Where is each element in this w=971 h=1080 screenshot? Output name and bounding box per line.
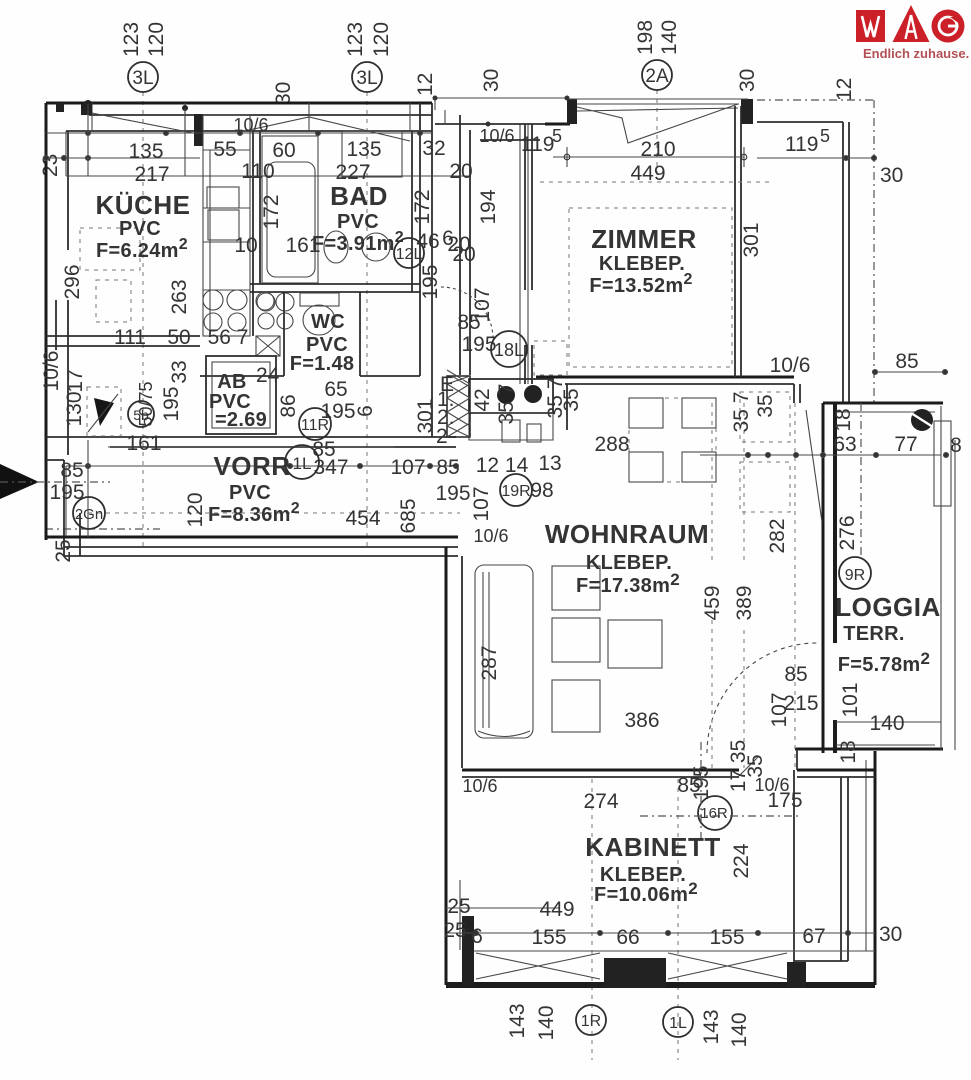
window A glazing (92, 103, 198, 134)
zimmer east wall (735, 106, 741, 377)
kabinett top wall (462, 749, 875, 985)
svg-text:LOGGIA: LOGGIA (835, 592, 941, 622)
svg-text:KÜCHE: KÜCHE (96, 190, 191, 220)
kabinett dimension lines (446, 880, 875, 950)
entry door black wedge (94, 398, 114, 426)
dimension line zimmer 449 (540, 147, 770, 182)
svg-text:6: 6 (354, 405, 377, 417)
dims wohnraum (435, 354, 818, 792)
room label wc (290, 311, 355, 375)
dims kabinett (443, 765, 825, 1047)
svg-text:30: 30 (880, 164, 903, 187)
svg-text:85: 85 (895, 350, 918, 373)
svg-text:66: 66 (616, 926, 639, 949)
svg-text:5: 5 (552, 126, 562, 146)
loggia door leaf (806, 410, 822, 522)
svg-text:195: 195 (435, 482, 470, 505)
room label kuche (96, 190, 191, 262)
svg-text:WOHNRAUM: WOHNRAUM (545, 519, 709, 549)
svg-text:101: 101 (839, 682, 862, 717)
building right wall below loggia (874, 751, 877, 985)
svg-text:120: 120 (370, 22, 393, 57)
svg-text:120: 120 (145, 22, 168, 57)
svg-text:18L: 18L (494, 340, 524, 360)
dims corridor column (414, 189, 763, 448)
svg-text:274: 274 (583, 790, 618, 813)
dims loggia (832, 408, 962, 763)
svg-text:32: 32 (422, 137, 445, 160)
svg-text:AB: AB (217, 371, 247, 393)
svg-text:288: 288 (594, 433, 629, 456)
svg-text:16R: 16R (700, 805, 728, 822)
loggia dimension marks (700, 370, 949, 723)
svg-text:195: 195 (419, 264, 442, 299)
dims bad wc (260, 189, 471, 461)
svg-text:107: 107 (390, 456, 425, 479)
svg-text:386: 386 (624, 709, 659, 732)
top wall outer line (46, 102, 432, 105)
svg-text:KLEBEP.: KLEBEP. (600, 864, 686, 886)
room label bad (312, 181, 404, 255)
hinge mark (911, 409, 933, 431)
zimmer bottom wall (536, 377, 794, 384)
svg-text:85: 85 (784, 663, 807, 686)
svg-text:140: 140 (658, 20, 681, 55)
top-left corner block (81, 104, 92, 115)
dimension line 1195 right top (757, 156, 877, 161)
svg-text:5: 5 (820, 126, 830, 146)
svg-text:85: 85 (457, 311, 480, 334)
svg-text:PVC: PVC (337, 211, 379, 233)
svg-text:F=17.38m2: F=17.38m2 (576, 570, 680, 597)
svg-text:17: 17 (64, 369, 87, 392)
wohnraum east wall / loggia west wall (794, 384, 835, 753)
zimmer window glazing (577, 104, 738, 143)
svg-text:135: 135 (128, 140, 163, 163)
svg-text:11R: 11R (301, 417, 329, 434)
dining table dashed (629, 392, 790, 512)
svg-text:67: 67 (802, 925, 825, 948)
svg-text:85: 85 (436, 456, 459, 479)
svg-text:35: 35 (754, 394, 777, 417)
svg-text:63: 63 (833, 433, 856, 456)
svg-text:5b: 5b (133, 407, 149, 423)
svg-text:1L: 1L (293, 454, 312, 473)
svg-text:111: 111 (114, 326, 146, 349)
svg-text:143: 143 (700, 1009, 723, 1044)
svg-text:30: 30 (272, 82, 295, 105)
corridor between left wing and zimmer (432, 96, 570, 438)
svg-text:F=6.24m2: F=6.24m2 (96, 236, 188, 262)
svg-text:35: 35 (560, 388, 583, 411)
svg-text:23: 23 (39, 154, 62, 177)
kitchen pass block top of wohnraum (469, 379, 567, 442)
svg-text:10: 10 (234, 234, 257, 257)
svg-text:2: 2 (436, 425, 448, 448)
top axis label 198/140 (634, 20, 681, 90)
zimmer top wall (545, 99, 753, 143)
svg-text:449: 449 (539, 898, 574, 921)
svg-text:172: 172 (260, 194, 283, 229)
zimmer door arc (441, 287, 493, 339)
small rotated dims top row (272, 69, 903, 946)
svg-text:10/6: 10/6 (233, 115, 268, 135)
vorr top wall (46, 437, 456, 447)
svg-text:161: 161 (126, 432, 161, 455)
svg-text:25: 25 (443, 919, 466, 942)
svg-text:215: 215 (783, 692, 818, 715)
zimmer dashed inner rect (569, 208, 732, 367)
svg-text:296: 296 (61, 264, 84, 299)
top axis label 123/120 mid (344, 22, 393, 92)
axis circles interior (73, 238, 871, 1037)
kitchen-bad divider wall (253, 131, 260, 336)
svg-text:195: 195 (160, 386, 183, 421)
room label zimmer (589, 224, 696, 297)
svg-text:25: 25 (447, 895, 470, 918)
svg-text:86: 86 (277, 394, 300, 417)
svg-text:60: 60 (272, 139, 295, 162)
svg-text:F=13.52m2: F=13.52m2 (589, 271, 692, 297)
shaft hatched (447, 370, 470, 437)
WAG logo (856, 5, 969, 61)
svg-text:50: 50 (167, 326, 190, 349)
svg-text:WC: WC (311, 311, 345, 333)
svg-text:454: 454 (345, 507, 380, 530)
svg-text:685: 685 (397, 498, 420, 533)
svg-text:172: 172 (411, 189, 434, 224)
svg-text:30: 30 (736, 69, 759, 92)
svg-text:143: 143 (506, 1003, 529, 1038)
svg-text:25: 25 (52, 539, 75, 562)
room label wohnraum (545, 519, 709, 597)
bad-wc divider (250, 284, 420, 292)
svg-text:30: 30 (879, 923, 902, 946)
svg-text:20: 20 (447, 233, 470, 256)
svg-text:10/6: 10/6 (770, 354, 811, 377)
svg-text:10/6: 10/6 (479, 126, 514, 146)
svg-text:24: 24 (256, 364, 280, 387)
svg-text:210: 210 (640, 138, 675, 161)
window B glazing (240, 103, 410, 141)
svg-text:1R: 1R (581, 1013, 601, 1030)
grid axes (88, 90, 678, 1060)
svg-text:459: 459 (701, 585, 724, 620)
svg-text:155: 155 (709, 926, 744, 949)
svg-text:135: 135 (346, 138, 381, 161)
ab room box (206, 356, 276, 434)
top wall inner lines (89, 114, 432, 116)
svg-text:155: 155 (531, 926, 566, 949)
svg-text:110: 110 (241, 160, 274, 183)
coffee tables (552, 566, 662, 732)
dimension lines left wing top (44, 104, 471, 176)
svg-text:18: 18 (832, 408, 855, 431)
svg-text:10/6: 10/6 (40, 351, 63, 392)
svg-text:194: 194 (477, 189, 500, 224)
right boundary above loggia (757, 100, 874, 403)
svg-text:175: 175 (767, 789, 802, 812)
svg-text:123: 123 (344, 22, 367, 57)
svg-text:12: 12 (833, 78, 856, 101)
svg-text:449: 449 (630, 162, 665, 185)
svg-text:227: 227 (335, 161, 370, 184)
svg-text:PVC: PVC (119, 218, 161, 240)
svg-text:140: 140 (535, 1005, 558, 1040)
wc room box (200, 292, 420, 376)
kabinett bottom wall (446, 916, 875, 988)
sofa wohnraum (475, 565, 533, 738)
svg-text:F=5.78m2: F=5.78m2 (838, 649, 930, 676)
svg-text:12: 12 (414, 73, 437, 96)
svg-text:F=10.06m2: F=10.06m2 (594, 879, 698, 906)
svg-text:35 7: 35 7 (495, 384, 518, 425)
svg-text:KLEBEP.: KLEBEP. (599, 253, 685, 275)
kitchen lower wall (46, 336, 200, 346)
kabinett right inner wall (794, 777, 848, 961)
svg-text:140: 140 (869, 712, 904, 735)
kitchen counter strip (203, 115, 294, 336)
svg-text:198: 198 (634, 20, 657, 55)
bottom wall of left wing (46, 536, 458, 539)
svg-text:161: 161 (285, 234, 320, 257)
svg-text:F=8.36m2: F=8.36m2 (208, 500, 300, 526)
svg-text:140: 140 (728, 1012, 751, 1047)
left big arrow (0, 464, 39, 499)
room label loggia (835, 592, 941, 676)
svg-text:35 7: 35 7 (730, 392, 753, 433)
svg-text:12 14: 12 14 (476, 454, 529, 477)
loggia walls (795, 403, 955, 750)
svg-text:42: 42 (471, 388, 494, 411)
svg-text:119: 119 (521, 133, 554, 156)
svg-text:56 7: 56 7 (208, 326, 249, 349)
svg-text:13: 13 (538, 452, 561, 475)
dims kuche interior (40, 234, 258, 455)
svg-text:98: 98 (530, 479, 553, 502)
svg-text:=2.69: =2.69 (215, 409, 267, 431)
svg-text:20: 20 (449, 160, 472, 183)
svg-text:119: 119 (785, 133, 818, 156)
svg-text:2A: 2A (645, 66, 669, 87)
wc right wall to corridor (412, 103, 420, 376)
svg-text:287: 287 (478, 645, 501, 680)
left outer wall (45, 103, 48, 540)
room label kabinett (585, 832, 720, 906)
svg-text:217: 217 (134, 163, 169, 186)
svg-text:12L: 12L (396, 246, 423, 263)
svg-text:65: 65 (324, 378, 347, 401)
svg-text:ZIMMER: ZIMMER (591, 224, 697, 254)
svg-text:F=3.91m2: F=3.91m2 (312, 229, 404, 255)
bad fixtures (262, 131, 402, 283)
svg-text:Endlich zuhause.: Endlich zuhause. (863, 46, 969, 61)
svg-text:85: 85 (60, 459, 83, 482)
room label vorr (208, 451, 300, 526)
wohnraum west wall (445, 547, 448, 985)
svg-text:VORR: VORR (213, 451, 290, 481)
top axis label 123/120 left (120, 22, 168, 92)
svg-text:19R: 19R (501, 483, 530, 500)
svg-text:10/6: 10/6 (462, 776, 497, 796)
svg-text:130: 130 (63, 391, 86, 426)
left wing outer walls (39, 103, 458, 556)
svg-text:263: 263 (168, 279, 191, 314)
svg-text:224: 224 (730, 843, 753, 878)
svg-text:BAD: BAD (330, 181, 388, 211)
svg-text:3L: 3L (132, 68, 153, 89)
svg-text:30: 30 (480, 69, 503, 92)
svg-text:77: 77 (894, 433, 917, 456)
dims vorr row (49, 440, 459, 563)
svg-text:6: 6 (471, 925, 483, 948)
svg-text:F=1.48: F=1.48 (290, 353, 355, 375)
svg-text:276: 276 (836, 515, 859, 550)
svg-text:120: 120 (184, 492, 207, 527)
svg-text:301: 301 (414, 398, 437, 433)
svg-text:9R: 9R (845, 567, 865, 584)
vorr dimension chain (66, 447, 459, 536)
svg-text:2Gn: 2Gn (75, 506, 103, 523)
svg-text:1L: 1L (669, 1015, 687, 1032)
svg-text:PVC: PVC (229, 482, 271, 504)
loggia door arc (707, 643, 817, 753)
svg-text:10/6: 10/6 (473, 526, 508, 546)
dims left wing top row (128, 115, 918, 373)
svg-text:8: 8 (950, 434, 962, 457)
svg-text:18: 18 (837, 740, 860, 763)
svg-text:KLEBEP.: KLEBEP. (586, 552, 672, 574)
svg-text:33: 33 (168, 360, 191, 383)
room label ab (209, 364, 280, 431)
svg-text:389: 389 (733, 585, 756, 620)
svg-text:55: 55 (213, 138, 236, 161)
left wall lower steps (46, 460, 80, 556)
zimmer left wall (525, 124, 532, 384)
pillar between kitchen window and 55 (194, 114, 203, 146)
svg-text:282: 282 (766, 518, 789, 553)
wohnraum-kabinett dim verticals (712, 403, 795, 770)
svg-text:123: 123 (120, 22, 143, 57)
svg-text:107: 107 (470, 486, 493, 521)
svg-text:3L: 3L (356, 68, 377, 89)
svg-text:TERR.: TERR. (843, 623, 905, 645)
svg-text:301: 301 (740, 222, 763, 257)
